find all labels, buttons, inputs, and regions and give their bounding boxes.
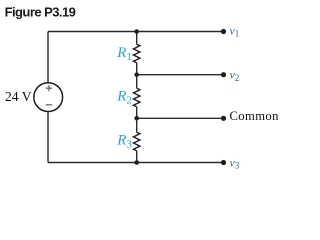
node junction R2-R3: [134, 116, 139, 121]
wire: Common tap wire: [137, 117, 224, 119]
svg-text:v1: v1: [230, 25, 240, 38]
wire: left vertical wire upper segment: [47, 32, 49, 83]
svg-text:24 V: 24 V: [5, 89, 32, 104]
wire: v2 tap wire: [137, 74, 224, 76]
wire: stub above R3: [136, 118, 138, 132]
svg-text:R3: R3: [116, 132, 132, 150]
svg-text:R2: R2: [116, 88, 132, 106]
svg-text:v3: v3: [230, 158, 240, 171]
terminal dot v1: [221, 29, 226, 34]
wire: stub below R2 to Common node: [136, 107, 138, 119]
resistor R1: [134, 44, 140, 63]
node junction top (v1 tap): [134, 29, 139, 34]
node junction bottom: [134, 160, 139, 165]
svg-text:v2: v2: [230, 70, 240, 83]
terminal dot v3: [221, 160, 226, 165]
svg-text:Figure P3.19: Figure P3.19: [5, 4, 76, 19]
wire: stub below R3 to bottom wire: [136, 151, 138, 163]
node junction R1-R2: [134, 72, 139, 77]
resistor R2: [134, 88, 140, 107]
voltage source 24 V: [34, 83, 63, 112]
wire: stub above R2: [136, 75, 138, 89]
wire: middle chain stub above R1: [136, 32, 138, 45]
wire: top wire from source to v1 terminal: [48, 31, 224, 33]
terminal dot v2: [221, 72, 226, 77]
svg-text:R1: R1: [116, 45, 132, 63]
resistor R3: [134, 132, 140, 151]
wire: bottom wire from source to v3 terminal: [48, 162, 224, 164]
wire: left vertical wire lower segment: [47, 112, 49, 163]
wire: stub below R1 to v2 node: [136, 63, 138, 75]
svg-text:Common: Common: [230, 109, 280, 123]
terminal dot Common: [221, 116, 226, 121]
